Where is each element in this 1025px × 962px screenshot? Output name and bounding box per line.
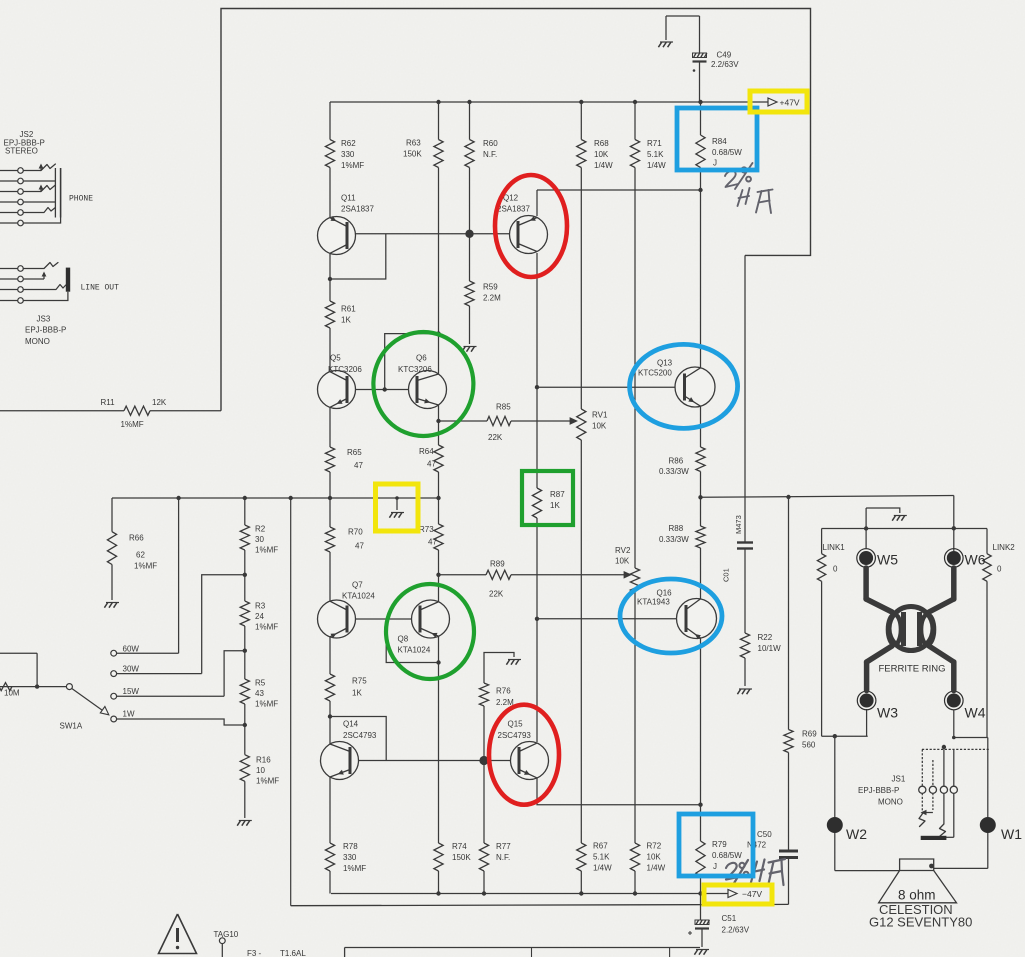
svg-text:R87: R87 xyxy=(550,490,565,499)
svg-text:R5: R5 xyxy=(255,679,266,688)
svg-text:MONO: MONO xyxy=(878,798,903,807)
svg-text:12K: 12K xyxy=(152,398,167,407)
svg-text:R84: R84 xyxy=(712,137,727,146)
svg-text:1%MF: 1%MF xyxy=(121,420,144,429)
svg-text:1K: 1K xyxy=(341,316,351,325)
svg-text:1/4W: 1/4W xyxy=(594,161,613,170)
svg-text:1/4W: 1/4W xyxy=(593,864,612,873)
svg-text:STEREO: STEREO xyxy=(5,147,38,156)
svg-text:KTA1024: KTA1024 xyxy=(342,592,375,601)
svg-text:0: 0 xyxy=(997,565,1002,574)
svg-text:2.2M: 2.2M xyxy=(483,294,501,303)
svg-text:Q11: Q11 xyxy=(341,194,356,203)
svg-text:G12 SEVENTY80: G12 SEVENTY80 xyxy=(869,915,972,930)
svg-text:MONO: MONO xyxy=(25,337,50,346)
svg-text:R76: R76 xyxy=(496,687,511,696)
svg-text:5.1K: 5.1K xyxy=(647,150,664,159)
svg-text:Q6: Q6 xyxy=(416,354,427,363)
svg-text:60W: 60W xyxy=(123,645,140,654)
svg-text:R64: R64 xyxy=(419,447,434,456)
svg-text:R63: R63 xyxy=(406,139,421,148)
svg-text:330: 330 xyxy=(343,853,357,862)
svg-text:R70: R70 xyxy=(348,528,363,537)
svg-text:0.68/5W: 0.68/5W xyxy=(712,851,742,860)
svg-text:Q13: Q13 xyxy=(657,359,673,368)
svg-text:1%MF: 1%MF xyxy=(341,161,364,170)
svg-text:Q7: Q7 xyxy=(352,581,363,590)
svg-text:43: 43 xyxy=(255,689,264,698)
svg-text:W2: W2 xyxy=(846,826,867,842)
svg-text:1%MF: 1%MF xyxy=(255,623,278,632)
svg-text:LINE OUT: LINE OUT xyxy=(81,284,120,293)
svg-text:1W: 1W xyxy=(123,710,135,719)
svg-text:W1: W1 xyxy=(1001,826,1022,842)
svg-text:1%MF: 1%MF xyxy=(255,546,278,555)
svg-text:R74: R74 xyxy=(452,842,467,851)
svg-text:330: 330 xyxy=(341,150,355,159)
svg-text:47: 47 xyxy=(355,542,364,551)
svg-text:150K: 150K xyxy=(403,150,422,159)
svg-text:N472: N472 xyxy=(747,841,767,850)
svg-text:1K: 1K xyxy=(352,689,362,698)
svg-text:JS1: JS1 xyxy=(892,775,906,784)
svg-text:10M: 10M xyxy=(4,689,20,698)
svg-text:Q15: Q15 xyxy=(508,720,524,729)
svg-text:J: J xyxy=(713,159,717,168)
svg-text:47: 47 xyxy=(354,461,363,470)
svg-text:W4: W4 xyxy=(965,705,986,721)
svg-text:T1.6AL: T1.6AL xyxy=(280,949,306,957)
svg-text:J: J xyxy=(713,862,717,871)
svg-text:62: 62 xyxy=(136,551,145,560)
svg-text:560: 560 xyxy=(802,741,816,750)
svg-text:LINK1: LINK1 xyxy=(823,543,846,552)
svg-text:R16: R16 xyxy=(256,756,271,765)
svg-text:C49: C49 xyxy=(717,51,732,60)
svg-text:KTC3206: KTC3206 xyxy=(398,365,432,374)
svg-text:R60: R60 xyxy=(483,139,498,148)
svg-text:−47V: −47V xyxy=(742,889,762,899)
svg-text:Q5: Q5 xyxy=(330,354,341,363)
svg-text:R86: R86 xyxy=(669,457,684,466)
svg-text:R2: R2 xyxy=(255,525,266,534)
svg-text:1K: 1K xyxy=(550,501,560,510)
svg-text:1/4W: 1/4W xyxy=(647,864,666,873)
svg-text:1/4W: 1/4W xyxy=(647,161,666,170)
svg-text:2.2/63V: 2.2/63V xyxy=(722,926,750,935)
svg-text:N.F.: N.F. xyxy=(483,150,497,159)
svg-text:8 ohm: 8 ohm xyxy=(898,888,936,903)
svg-text:R65: R65 xyxy=(347,448,362,457)
svg-text:RV1: RV1 xyxy=(592,411,608,420)
svg-text:Q12: Q12 xyxy=(503,194,519,203)
svg-text:R71: R71 xyxy=(647,139,662,148)
svg-text:R69: R69 xyxy=(802,730,817,739)
svg-text:C50: C50 xyxy=(757,830,772,839)
svg-text:RV2: RV2 xyxy=(615,546,631,555)
svg-text:KTC5200: KTC5200 xyxy=(638,369,672,378)
svg-text:10K: 10K xyxy=(592,422,607,431)
svg-text:R75: R75 xyxy=(352,677,367,686)
svg-text:R11: R11 xyxy=(101,398,116,407)
svg-text:EPJ-BBB-P: EPJ-BBB-P xyxy=(858,786,899,795)
svg-text:22K: 22K xyxy=(489,590,504,599)
svg-text:10: 10 xyxy=(256,766,265,775)
svg-text:W3: W3 xyxy=(877,705,898,721)
svg-text:0.33/3W: 0.33/3W xyxy=(659,467,689,476)
svg-text:EPJ-BBB-P: EPJ-BBB-P xyxy=(25,326,66,335)
svg-text:R66: R66 xyxy=(129,534,144,543)
svg-text:FERRITE RING: FERRITE RING xyxy=(879,664,946,675)
svg-text:R89: R89 xyxy=(490,560,505,569)
svg-text:C01: C01 xyxy=(722,568,731,582)
svg-text:R77: R77 xyxy=(496,842,511,851)
svg-text:R22: R22 xyxy=(758,633,773,642)
svg-text:+47V: +47V xyxy=(780,98,800,108)
svg-text:LINK2: LINK2 xyxy=(993,543,1016,552)
svg-text:24: 24 xyxy=(255,612,264,621)
svg-text:KTC3206: KTC3206 xyxy=(328,365,362,374)
svg-text:N.F.: N.F. xyxy=(496,853,510,862)
svg-text:1%MF: 1%MF xyxy=(343,864,366,873)
svg-text:R73: R73 xyxy=(419,525,434,534)
svg-text:R61: R61 xyxy=(341,305,356,314)
svg-text:150K: 150K xyxy=(452,853,471,862)
svg-text:0: 0 xyxy=(833,565,838,574)
svg-text:2SA1837: 2SA1837 xyxy=(497,205,530,214)
svg-text:JS3: JS3 xyxy=(37,315,51,324)
svg-text:W5: W5 xyxy=(877,552,898,568)
svg-text:1%MF: 1%MF xyxy=(134,562,157,571)
svg-text:C51: C51 xyxy=(722,914,737,923)
svg-text:10/1W: 10/1W xyxy=(758,644,782,653)
svg-text:KTA1024: KTA1024 xyxy=(398,646,431,655)
svg-text:KTA1943: KTA1943 xyxy=(637,598,670,607)
svg-text:R59: R59 xyxy=(483,283,498,292)
svg-text:Q14: Q14 xyxy=(343,720,359,729)
svg-text:2.2/63V: 2.2/63V xyxy=(711,60,739,69)
svg-text:TAG10: TAG10 xyxy=(214,930,239,939)
svg-text:R78: R78 xyxy=(343,842,358,851)
svg-text:R3: R3 xyxy=(255,602,266,611)
svg-text:5.1K: 5.1K xyxy=(593,853,610,862)
svg-text:0.33/3W: 0.33/3W xyxy=(659,535,689,544)
svg-text:Q16: Q16 xyxy=(657,589,673,598)
svg-text:30W: 30W xyxy=(123,665,140,674)
svg-text:Q8: Q8 xyxy=(398,635,409,644)
svg-text:W6: W6 xyxy=(965,552,986,568)
svg-text:PHONE: PHONE xyxy=(69,195,93,204)
svg-text:2SC4793: 2SC4793 xyxy=(498,731,532,740)
svg-text:1%MF: 1%MF xyxy=(255,700,278,709)
svg-text:SW1A: SW1A xyxy=(60,722,83,731)
svg-text:R68: R68 xyxy=(594,139,609,148)
svg-text:1%MF: 1%MF xyxy=(256,777,279,786)
svg-text:10K: 10K xyxy=(594,150,609,159)
svg-text:R88: R88 xyxy=(669,524,684,533)
svg-text:2SA1837: 2SA1837 xyxy=(341,205,374,214)
svg-text:30: 30 xyxy=(255,535,264,544)
svg-text:R72: R72 xyxy=(647,842,662,851)
svg-text:2SC4793: 2SC4793 xyxy=(343,731,377,740)
svg-text:10K: 10K xyxy=(615,557,630,566)
svg-text:22K: 22K xyxy=(488,433,503,442)
svg-text:0.68/5W: 0.68/5W xyxy=(712,148,742,157)
svg-text:R67: R67 xyxy=(593,842,608,851)
svg-text:F3 -: F3 - xyxy=(247,949,262,957)
svg-text:47: 47 xyxy=(428,538,437,547)
svg-text:R62: R62 xyxy=(341,139,356,148)
svg-text:47: 47 xyxy=(427,460,436,469)
svg-text:R79: R79 xyxy=(712,840,727,849)
svg-text:R85: R85 xyxy=(496,403,511,412)
svg-text:15W: 15W xyxy=(123,687,140,696)
svg-text:10K: 10K xyxy=(647,853,662,862)
svg-text:M473: M473 xyxy=(734,515,743,534)
